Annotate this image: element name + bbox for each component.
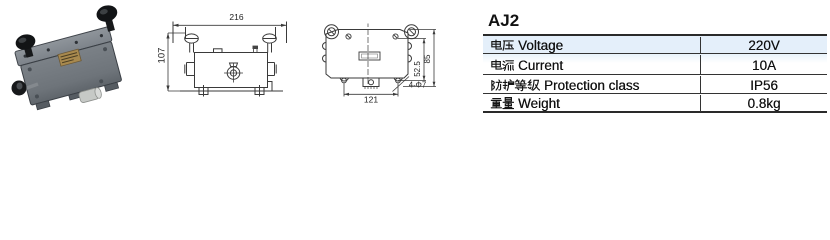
svg-text:52.5: 52.5 <box>413 61 422 77</box>
svg-text:4-Φ7: 4-Φ7 <box>409 81 427 90</box>
svg-text:107: 107 <box>157 48 168 64</box>
svg-text:121: 121 <box>364 95 378 105</box>
svg-text:216: 216 <box>229 12 243 22</box>
svg-text:85: 85 <box>423 54 432 63</box>
